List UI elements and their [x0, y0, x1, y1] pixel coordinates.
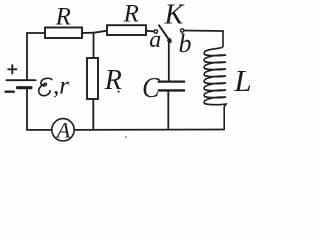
ammeter A circle: [52, 119, 74, 141]
speck below bottom wire: [125, 136, 127, 138]
wire bottom-left (ammeter to battery): [27, 90, 52, 130]
svg-text:R: R: [55, 3, 71, 30]
svg-text:A: A: [55, 117, 71, 142]
resistor R1: [45, 28, 82, 39]
wire junction down to R3: [93, 33, 95, 58]
battery positive plate (long): [7, 79, 36, 81]
label - (battery negative): [6, 90, 14, 92]
label E,r (EMF script E): [39, 73, 70, 100]
wire top-left (battery to R1): [27, 33, 45, 80]
svg-text:L: L: [233, 63, 251, 98]
wire contact b to inductor: [184, 30, 223, 33]
switch K contact a: [154, 30, 157, 33]
wire R3 down to bottom: [92, 99, 94, 130]
speck after R3 label: [118, 91, 120, 93]
resistor R2: [107, 25, 146, 35]
capacitor C top plate: [158, 80, 185, 82]
switch K pivot dot: [167, 38, 171, 42]
wire capacitor down to bottom: [167, 91, 169, 129]
wire R2 to contact a: [146, 30, 154, 33]
battery negative plate (short thick): [18, 86, 32, 89]
wire R1 to R2 with junction: [82, 31, 107, 33]
label + (battery positive): [8, 65, 16, 73]
svg-text:C: C: [142, 72, 160, 103]
svg-text:K: K: [164, 0, 185, 31]
capacitor C bottom plate: [158, 89, 185, 91]
resistor R3 (middle vertical): [87, 58, 98, 99]
svg-text:a: a: [149, 27, 161, 53]
svg-text:b: b: [179, 29, 192, 58]
wire pivot down to capacitor: [168, 42, 170, 81]
svg-text:,r: ,r: [53, 73, 69, 100]
wire bottom: [75, 129, 225, 131]
switch K contact b: [181, 29, 184, 32]
svg-text:R: R: [123, 1, 139, 28]
inductor L coil: [204, 31, 226, 130]
switch K blade: [159, 25, 171, 42]
